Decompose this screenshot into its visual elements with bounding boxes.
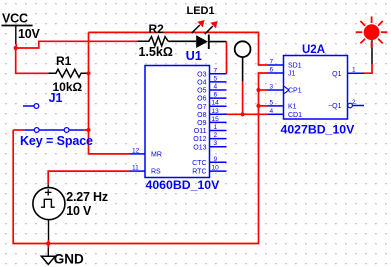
- wire left ground rail down/bottom bus/right riser: [13, 73, 267, 244]
- svg-text:Q1: Q1: [332, 71, 341, 78]
- pin 5 stub (U2A K1): [268, 99, 297, 110]
- svg-text:3: 3: [214, 140, 218, 147]
- svg-text:1: 1: [352, 67, 356, 74]
- svg-text:CP1: CP1: [288, 88, 302, 95]
- clock bottom lead: [48, 220, 50, 240]
- svg-text:O9: O9: [197, 120, 206, 127]
- LED LED1 cathode bar: [208, 35, 210, 50]
- pin 6 stub (U2A J1): [268, 67, 296, 78]
- wire rail (top corner down to MR corner): [89, 32, 130, 153]
- label LED1: [187, 5, 215, 17]
- clock source squarewave glyph: [41, 199, 55, 207]
- lamp stem: [371, 40, 373, 64]
- wire to U2A K1: [259, 105, 268, 107]
- lamp X1 rays: [356, 16, 388, 48]
- pin 11 stub (U1 RS): [130, 165, 162, 176]
- svg-text:O5: O5: [197, 88, 206, 95]
- svg-text:4: 4: [214, 84, 218, 91]
- svg-text:5: 5: [270, 99, 274, 106]
- op-amp U2A body (4027BD): [284, 56, 348, 120]
- svg-text:1.5kΩ: 1.5kΩ: [139, 45, 173, 59]
- label 10V (VCC): [18, 27, 41, 41]
- label 4060BD_10V: [146, 178, 221, 192]
- label Key = Space: [20, 134, 93, 148]
- svg-text:J1: J1: [288, 71, 296, 78]
- svg-text:LED1: LED1: [187, 5, 215, 17]
- pin 2 stub (U1 O12): [193, 132, 226, 143]
- value 1.5k&#937; (R2): [139, 45, 173, 59]
- wire VCC node to R2 feed: [16, 41, 138, 48]
- svg-text:11: 11: [132, 165, 139, 172]
- switch J1 upper throw lead: [23, 105, 34, 107]
- svg-text:4060BD_10V: 4060BD_10V: [146, 178, 221, 192]
- svg-text:7: 7: [214, 67, 218, 74]
- label U2A: [302, 44, 325, 56]
- svg-text:10V: 10V: [18, 27, 41, 41]
- svg-text:R2: R2: [149, 22, 165, 36]
- svg-text:O4: O4: [197, 80, 206, 87]
- pin 7 stub (U2A SD1): [268, 59, 302, 70]
- switch J1 left lead: [24, 129, 34, 131]
- svg-text:SD1: SD1: [288, 63, 302, 70]
- pin 4 stub (U1 O5): [197, 84, 226, 95]
- wire U1 O8 to U2A CD1: [227, 113, 268, 115]
- svg-text:10: 10: [212, 165, 220, 172]
- svg-text:2: 2: [214, 132, 218, 139]
- node VCC junction: [14, 46, 18, 50]
- svg-text:K1: K1: [288, 104, 297, 111]
- pin 2 stub (U2A ~Q1): [328, 99, 364, 110]
- label U1: [186, 49, 202, 63]
- wire U2A Q1 to lamp: [364, 64, 372, 73]
- clock source plus sign: [45, 189, 52, 195]
- svg-text:Key = Space: Key = Space: [20, 134, 93, 148]
- svg-text:O11: O11: [194, 128, 207, 135]
- node K1 junction: [256, 104, 260, 108]
- svg-text:O3: O3: [197, 71, 206, 78]
- wire clock bottom to ground bus: [48, 240, 50, 244]
- label 4027BD_10V: [281, 122, 356, 136]
- wire top bus to U2A SD1: [89, 32, 268, 65]
- probe circle: [235, 41, 251, 57]
- wire to U2A CP1: [259, 89, 268, 91]
- probe stem: [242, 57, 244, 82]
- svg-text:15: 15: [212, 116, 220, 123]
- ground stem: [47, 244, 49, 257]
- switch J1 upper throw contact: [34, 104, 39, 109]
- switch J1 right contact: [64, 128, 69, 133]
- svg-text:O6: O6: [197, 96, 206, 103]
- pin 3 stub (U1 O13): [193, 140, 226, 151]
- pin 3 stub (U2A CP1): [268, 84, 302, 95]
- svg-text:6: 6: [214, 92, 218, 99]
- pin 6 stub (U1 O6): [197, 92, 226, 103]
- svg-text:2: 2: [352, 99, 356, 106]
- label J1: [49, 91, 63, 105]
- svg-text:MR: MR: [151, 152, 162, 159]
- pin 1 stub (U2A Q1): [332, 67, 364, 78]
- wire R2 to LED anode: [168, 40, 196, 42]
- svg-text:J1: J1: [49, 91, 63, 105]
- svg-text:U1: U1: [186, 49, 202, 63]
- svg-text:1: 1: [214, 124, 218, 131]
- svg-text:O12: O12: [193, 136, 206, 143]
- wire VCC stem to node: [15, 44, 17, 48]
- value 10k&#937; (R1): [53, 80, 83, 94]
- pin 13 stub (U1 O8): [197, 108, 226, 119]
- label R2: [149, 22, 165, 36]
- LED light arrow 1 head: [197, 20, 204, 27]
- svg-text:GND: GND: [54, 252, 84, 267]
- resistor R2: [137, 37, 168, 46]
- svg-text:CD1: CD1: [288, 112, 302, 119]
- svg-text:U2A: U2A: [302, 44, 325, 56]
- ground symbol: [41, 256, 55, 264]
- svg-text:4027BD_10V: 4027BD_10V: [281, 122, 356, 136]
- label VCC: [2, 12, 28, 26]
- pin 7 stub (U1 O3): [197, 67, 226, 78]
- LED light arrow 2 shaft: [205, 26, 213, 34]
- wire clock to U1 RS: [48, 171, 129, 184]
- node probe junction: [241, 112, 245, 116]
- node R1-rail junction: [86, 71, 90, 75]
- svg-text:O8: O8: [197, 112, 206, 119]
- wire LED corner down to U1 pin 7: [226, 42, 228, 74]
- svg-text:RTC: RTC: [192, 169, 206, 176]
- wire switch right to rail: [84, 129, 89, 131]
- svg-text:RS: RS: [151, 169, 161, 176]
- svg-text:VCC: VCC: [2, 12, 28, 26]
- op-amp U1 body (4060BD): [145, 66, 210, 178]
- wire LED cathode to corner: [210, 41, 227, 43]
- lamp X1 bulb: [364, 24, 380, 40]
- switch J1 right lead: [69, 129, 83, 131]
- svg-text:5: 5: [214, 75, 218, 82]
- svg-text:12: 12: [132, 147, 140, 154]
- svg-text:14: 14: [212, 100, 220, 107]
- svg-text:4: 4: [270, 108, 274, 115]
- svg-text:CTC: CTC: [192, 160, 206, 167]
- label GND: [54, 252, 84, 267]
- switch J1 left contact: [34, 128, 39, 133]
- svg-text:2.27 Hz: 2.27 Hz: [66, 190, 108, 204]
- pin 5 stub (U1 O4): [197, 75, 226, 86]
- wire switch-row left: [13, 129, 24, 131]
- svg-text:13: 13: [212, 108, 220, 115]
- pin 12 stub (U1 MR): [130, 147, 162, 158]
- node CP1 junction: [256, 88, 260, 92]
- svg-text:10 V: 10 V: [66, 204, 92, 218]
- svg-text:3: 3: [270, 84, 274, 91]
- svg-text:~Q1: ~Q1: [328, 103, 342, 110]
- resistor R1: [48, 69, 87, 77]
- svg-text:O13: O13: [193, 144, 206, 151]
- pin 10 stub (U1 RTC): [192, 165, 226, 176]
- svg-text:9: 9: [214, 156, 218, 163]
- pin 14 stub (U1 O7): [197, 100, 226, 111]
- pin 4 stub (U2A CD1): [268, 108, 303, 119]
- label R1: [56, 54, 72, 68]
- pin 1 stub (U1 O11): [194, 124, 227, 135]
- wire VCC node down to R1: [16, 48, 49, 73]
- value 10 V (clock): [66, 204, 92, 218]
- pin 9 stub (U1 CTC): [192, 156, 226, 167]
- node switch-rail junction: [86, 128, 90, 132]
- value 2.27 Hz (clock): [66, 190, 108, 204]
- clock top lead: [47, 184, 49, 188]
- wire probe to O8 net: [242, 82, 244, 115]
- LED LED1 triangle: [196, 35, 208, 48]
- pin 15 stub (U1 O9): [197, 116, 226, 127]
- svg-text:6: 6: [270, 67, 274, 74]
- svg-text:7: 7: [270, 59, 274, 66]
- svg-text:R1: R1: [56, 54, 72, 68]
- svg-text:O7: O7: [197, 104, 206, 111]
- clock source circle: [33, 188, 65, 220]
- power VCC symbol: [2, 26, 33, 45]
- LED light arrow 2 head: [210, 21, 217, 28]
- LED light arrow 1 shaft: [192, 25, 200, 33]
- node ground junction: [46, 241, 50, 245]
- switch J1 lever: [39, 129, 64, 131]
